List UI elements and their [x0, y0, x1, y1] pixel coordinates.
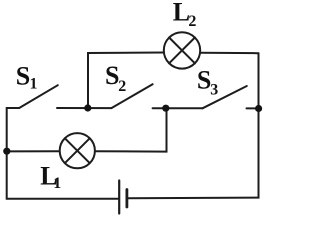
- wire L1 branch: lamp L1 right edge to corner up to node B: [95, 108, 167, 151]
- wire bottom-right rail and right vertical up to top-right corner: [128, 53, 259, 198]
- svg-text:2: 2: [118, 78, 126, 95]
- wire left loop: middle rail corner, left vertical, bottom-left rail to battery: [7, 108, 118, 199]
- svg-text:S: S: [105, 61, 119, 90]
- svg-text:2: 2: [188, 13, 196, 30]
- svg-text:1: 1: [53, 175, 61, 192]
- svg-text:1: 1: [30, 75, 38, 92]
- svg-text:3: 3: [210, 81, 218, 98]
- node C junction dot: [255, 105, 262, 112]
- switch S3 blade: [203, 86, 247, 108]
- node A junction dot: [84, 104, 91, 111]
- wire middle rail S2 right contact to S3 pivot through node B: [153, 107, 203, 109]
- switch S1 blade: [19, 85, 58, 108]
- wire L1 branch: node D to lamp L1 left edge: [7, 150, 60, 152]
- wire S3 right contact to node C: [247, 107, 259, 109]
- lamp L1 circle with cross: [60, 133, 95, 168]
- node D junction dot: [3, 148, 10, 155]
- node B junction dot: [162, 105, 169, 112]
- wire top rail: lamp L2 left edge to corner and down to node A: [88, 53, 164, 109]
- battery short plate: [126, 190, 129, 208]
- wire top rail: right corner to lamp L2 right edge: [200, 52, 258, 55]
- svg-text:S: S: [197, 65, 211, 94]
- wire middle rail S1 right contact to S2 pivot through node A: [57, 107, 111, 109]
- lamp L2 circle with cross: [164, 32, 200, 68]
- svg-text:S: S: [16, 61, 30, 90]
- battery long plate: [118, 181, 120, 214]
- switch S2 blade: [111, 84, 152, 108]
